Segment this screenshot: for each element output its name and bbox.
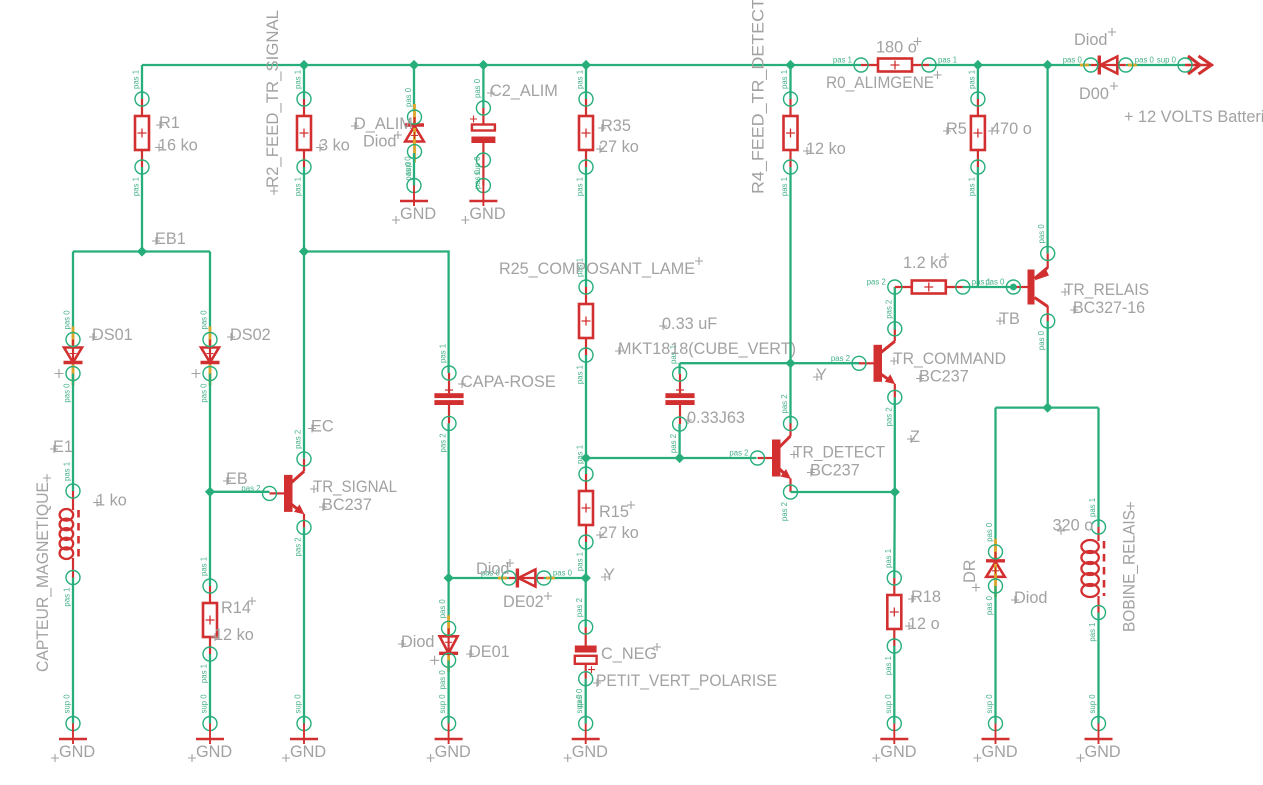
wire R15 to Y xyxy=(585,542,587,578)
wire EB to TR_SIGNAL base xyxy=(210,491,270,493)
svg-text:pas 1: pas 1 xyxy=(439,344,448,363)
ground GND (R18) xyxy=(872,694,916,762)
wire base row to TR_DETECT xyxy=(586,457,757,459)
svg-text:CAPA-ROSE: CAPA-ROSE xyxy=(461,373,556,391)
wire R2 drop from bus xyxy=(303,65,305,99)
svg-text:GND: GND xyxy=(469,205,505,223)
svg-text:pas 2: pas 2 xyxy=(780,502,789,521)
ground GND (C2_ALIM) xyxy=(461,156,505,224)
svg-text:+ 12 VOLTS Batterie: + 12 VOLTS Batterie xyxy=(1124,108,1263,126)
svg-text:DE02: DE02 xyxy=(503,593,544,611)
ground GND (C_NEG) xyxy=(564,694,608,762)
svg-text:GND: GND xyxy=(59,743,95,761)
wire R25 to base node xyxy=(585,355,587,458)
svg-text:PETIT_VERT_POLARISE: PETIT_VERT_POLARISE xyxy=(596,672,777,690)
svg-text:pas 2: pas 2 xyxy=(669,434,678,453)
svg-text:pas 1: pas 1 xyxy=(63,462,72,481)
wire Y row to TR_COMMAND base xyxy=(680,362,860,364)
svg-text:pas 2: pas 2 xyxy=(884,300,893,319)
wire relay row xyxy=(996,406,1099,408)
svg-text:pas 1: pas 1 xyxy=(294,70,303,89)
wire EB1 to DS01 xyxy=(72,252,74,340)
node E1 label xyxy=(50,438,73,456)
svg-text:TR_COMMAND: TR_COMMAND xyxy=(893,350,1006,368)
svg-text:GND: GND xyxy=(982,743,1018,761)
transistor TR_RELAIS xyxy=(985,224,1149,350)
svg-text:12 o: 12 o xyxy=(908,615,940,633)
junction relay node xyxy=(1043,403,1053,413)
svg-text:0.33J63: 0.33J63 xyxy=(687,409,745,427)
junction node EC xyxy=(299,246,309,256)
svg-text:pas 0: pas 0 xyxy=(200,310,209,330)
svg-text:R0_ALIMGENE: R0_ALIMGENE xyxy=(826,74,934,92)
ground GND (BOBINE) xyxy=(1077,694,1121,762)
svg-text:pas 0: pas 0 xyxy=(1135,56,1155,65)
svg-text:pas 1: pas 1 xyxy=(967,177,976,196)
svg-text:1.2 ko: 1.2 ko xyxy=(903,254,947,272)
wire EB to R14 xyxy=(209,492,211,586)
resistor R25 xyxy=(499,257,703,384)
svg-text:CAPTEUR_MAGNETIQUE: CAPTEUR_MAGNETIQUE xyxy=(34,482,52,672)
svg-text:pas 0: pas 0 xyxy=(1063,56,1083,65)
wire C_NEG to GND xyxy=(585,679,587,724)
wire relay row to DR xyxy=(994,408,996,552)
wire +12V bus left segment xyxy=(142,64,861,66)
svg-text:pas 1: pas 1 xyxy=(63,588,72,607)
junction bus/C2_ALIM xyxy=(478,60,488,70)
wire R2 to node EC xyxy=(303,167,305,252)
svg-text:pas 1: pas 1 xyxy=(576,365,585,384)
svg-text:pas 1: pas 1 xyxy=(967,70,976,89)
wire R5 drop from bus xyxy=(977,65,979,99)
svg-text:pas 0: pas 0 xyxy=(1037,330,1046,350)
wire 1.2ko to TR_RELAIS base xyxy=(963,286,1014,288)
wire D_ALIM drop from bus xyxy=(413,65,415,112)
svg-text:pas 0: pas 0 xyxy=(985,522,994,542)
wire CAPA-ROSE to DE row xyxy=(447,423,449,578)
node TB label xyxy=(996,310,1020,328)
svg-text:sup 0: sup 0 xyxy=(438,694,447,714)
junction cap/base row xyxy=(675,453,685,463)
svg-text:pas 0: pas 0 xyxy=(200,383,209,403)
svg-text:BOBINE_RELAIS: BOBINE_RELAIS xyxy=(1121,510,1139,632)
svg-text:pas 1: pas 1 xyxy=(132,70,141,89)
wire TR_COMMAND collector up xyxy=(894,287,896,330)
svg-text:R18: R18 xyxy=(911,588,941,606)
svg-text:R35: R35 xyxy=(601,117,631,135)
svg-text:pas 0: pas 0 xyxy=(63,310,72,330)
node EC label xyxy=(308,418,334,436)
svg-text:Diod: Diod xyxy=(1074,31,1108,49)
resistor R2 xyxy=(264,10,350,196)
svg-text:BC327-16: BC327-16 xyxy=(1073,299,1145,317)
svg-text:pas 1: pas 1 xyxy=(294,177,303,196)
ground GND (DR) xyxy=(974,694,1018,762)
wire C2_ALIM drop from bus xyxy=(482,65,484,108)
wire Y row to TR_DETECT collector xyxy=(789,363,791,424)
svg-text:pas 2: pas 2 xyxy=(729,449,748,458)
junction node EB xyxy=(205,487,215,497)
svg-text:MKT1818(CUBE_VERT): MKT1818(CUBE_VERT) xyxy=(618,340,796,358)
wire R1 drop from bus xyxy=(141,65,143,99)
svg-text:pas 1: pas 1 xyxy=(1088,498,1097,517)
wire DE02 right xyxy=(544,577,586,579)
svg-text:R2_FEED_TR_SIGNAL: R2_FEED_TR_SIGNAL xyxy=(264,10,282,188)
svg-text:pas 1: pas 1 xyxy=(884,549,893,568)
svg-text:C2_ALIM: C2_ALIM xyxy=(490,82,558,100)
node Y label (TR_COMMAND) xyxy=(813,366,827,384)
svg-text:pas 1: pas 1 xyxy=(576,177,585,196)
resistor 1.2 ko xyxy=(867,253,991,294)
svg-text:GND: GND xyxy=(880,743,916,761)
junction node EB1 xyxy=(137,246,147,256)
resistor R14 xyxy=(200,557,257,683)
svg-text:Diod: Diod xyxy=(363,133,397,151)
svg-text:pas 1: pas 1 xyxy=(884,656,893,675)
svg-text:pas 0: pas 0 xyxy=(1037,224,1046,244)
wire TR_RELAIS collector down xyxy=(1047,321,1049,408)
svg-text:DS01: DS01 xyxy=(92,326,133,344)
svg-text:0.33 uF: 0.33 uF xyxy=(662,315,717,333)
svg-text:R15: R15 xyxy=(599,503,629,521)
svg-text:DR: DR xyxy=(961,559,979,583)
svg-text:R5: R5 xyxy=(946,120,967,138)
inductor CAPTEUR_MAGNETIQUE xyxy=(34,462,127,672)
capacitor C_NEG xyxy=(575,598,777,708)
junction bus/R35 xyxy=(581,60,591,70)
wire +12V bus middle segment xyxy=(929,64,1091,66)
svg-text:TR_RELAIS: TR_RELAIS xyxy=(1064,281,1149,299)
wire DS01 to coil xyxy=(72,374,74,492)
node EC wire to CAPA-ROSE xyxy=(304,252,449,374)
wire EC down to collector xyxy=(303,252,305,459)
svg-text:sup 0: sup 0 xyxy=(404,156,413,176)
diode DR xyxy=(961,522,1048,615)
svg-text:R14: R14 xyxy=(221,599,251,617)
svg-text:pas 1: pas 1 xyxy=(576,552,585,571)
wire DR to GND xyxy=(994,586,996,724)
wire DE02 left xyxy=(449,577,509,579)
svg-text:sup 0: sup 0 xyxy=(1088,694,1097,714)
svg-text:pas 0: pas 0 xyxy=(438,670,447,690)
wire EB1 horizontal xyxy=(73,250,210,252)
node EB1 label xyxy=(152,230,186,248)
svg-text:sup 0: sup 0 xyxy=(884,694,893,714)
svg-text:sup 0: sup 0 xyxy=(63,694,72,714)
svg-text:EC: EC xyxy=(311,418,334,436)
junction base node (R15 top) xyxy=(581,453,591,463)
wire R4 drop from bus xyxy=(789,65,791,99)
svg-text:pas 1: pas 1 xyxy=(576,70,585,89)
supply symbol +12V xyxy=(1157,56,1213,75)
svg-text:pas 1: pas 1 xyxy=(938,56,957,65)
svg-text:TR_SIGNAL: TR_SIGNAL xyxy=(313,478,397,496)
wire TR_SIGNAL emitter to GND xyxy=(303,527,305,723)
svg-text:TB: TB xyxy=(999,310,1020,328)
wire TR_DETECT emitter row xyxy=(791,491,895,493)
svg-text:Y: Y xyxy=(816,366,827,384)
svg-text:pas 2: pas 2 xyxy=(831,354,850,363)
wire cap 0.33 branch xyxy=(678,363,680,374)
svg-text:Diod: Diod xyxy=(401,633,435,651)
resistor R5 xyxy=(943,70,1032,196)
svg-text:BC237: BC237 xyxy=(322,496,372,514)
svg-text:pas 1: pas 1 xyxy=(576,445,585,464)
junction bus/R4 xyxy=(785,60,795,70)
svg-text:sup 0: sup 0 xyxy=(200,694,209,714)
svg-text:pas 1: pas 1 xyxy=(780,177,789,196)
svg-text:12 ko: 12 ko xyxy=(214,626,254,644)
junction DE01/DE02 node xyxy=(444,573,454,583)
wire R35 to R25 xyxy=(585,167,587,287)
junction bus/R2 xyxy=(299,60,309,70)
svg-text:27 ko: 27 ko xyxy=(599,524,639,542)
junction bus/D_ALIM xyxy=(409,60,419,70)
transistor TR_COMMAND xyxy=(831,300,1006,427)
svg-text:pas 2: pas 2 xyxy=(780,394,789,413)
svg-text:DS02: DS02 xyxy=(230,326,271,344)
ground GND (D_ALIM) xyxy=(392,156,436,224)
svg-text:3 ko: 3 ko xyxy=(319,137,350,155)
resistor R18 xyxy=(884,549,941,675)
diode D00 xyxy=(1063,28,1155,103)
wire R14 to GND xyxy=(209,654,211,724)
svg-text:GND: GND xyxy=(196,743,232,761)
wire BOBINE to GND xyxy=(1097,613,1099,724)
svg-text:sup 0: sup 0 xyxy=(1157,56,1177,65)
wire cap 0.33 to base row xyxy=(678,424,680,458)
svg-text:pas 0: pas 0 xyxy=(473,78,482,98)
svg-text:GND: GND xyxy=(290,743,326,761)
node EB label xyxy=(223,470,248,488)
capacitor C2_ALIM xyxy=(470,78,558,189)
wire C2_ALIM to GND xyxy=(482,160,484,186)
ground GND (DE01) xyxy=(427,694,471,762)
svg-text:12 ko: 12 ko xyxy=(806,140,846,158)
resistor R0_ALIMGENE xyxy=(826,38,957,93)
svg-text:pas 2: pas 2 xyxy=(439,433,448,452)
wire D_ALIM to GND xyxy=(413,153,415,186)
svg-text:sup 0: sup 0 xyxy=(473,156,482,176)
wire +12V bus right segment xyxy=(1126,64,1185,66)
wire TR_COMMAND emitter to Z xyxy=(894,397,896,492)
svg-text:D_ALIM: D_ALIM xyxy=(354,115,413,133)
junction node Z xyxy=(890,487,900,497)
svg-text:pas 0: pas 0 xyxy=(63,383,72,403)
junction bus/R5 xyxy=(973,60,983,70)
svg-text:pas 1: pas 1 xyxy=(833,56,852,65)
svg-text:GND: GND xyxy=(435,743,471,761)
diode DS01 xyxy=(55,310,133,403)
svg-text:GND: GND xyxy=(400,205,436,223)
wire R5 to TB node xyxy=(977,167,979,287)
svg-text:pas 2: pas 2 xyxy=(884,407,893,426)
svg-text:1 ko: 1 ko xyxy=(96,492,127,510)
svg-text:pas 1: pas 1 xyxy=(780,70,789,89)
svg-text:pas 0: pas 0 xyxy=(985,278,1005,287)
wire TR_RELAIS emitter to bus xyxy=(1046,65,1048,253)
svg-text:D00: D00 xyxy=(1079,85,1109,103)
svg-text:sup 0: sup 0 xyxy=(985,694,994,714)
svg-text:DE01: DE01 xyxy=(469,643,510,661)
svg-text:470 o: 470 o xyxy=(991,120,1032,138)
resistor R1 xyxy=(132,70,198,196)
svg-text:R25_COMPOSANT_LAME: R25_COMPOSANT_LAME xyxy=(499,260,695,278)
wire DE01 to GND xyxy=(447,660,449,723)
capacitor 0.33uF MKT1818 xyxy=(615,315,796,453)
diode DS02 xyxy=(192,310,271,403)
diode DE02 xyxy=(476,559,573,611)
svg-text:pas 2: pas 2 xyxy=(294,537,303,556)
resistor R15 xyxy=(576,445,639,571)
wire coil to GND xyxy=(72,578,74,724)
transistor TR_DETECT xyxy=(729,394,885,521)
svg-text:27 ko: 27 ko xyxy=(599,138,639,156)
diode D_ALIM xyxy=(351,87,424,180)
svg-text:pas 2: pas 2 xyxy=(575,598,584,617)
svg-text:pas 2: pas 2 xyxy=(241,484,260,493)
wire relay row to BOBINE xyxy=(1097,408,1099,527)
svg-text:pas 1: pas 1 xyxy=(200,664,209,683)
svg-text:pas 1: pas 1 xyxy=(200,557,209,576)
wire to R15 xyxy=(585,458,587,474)
diode DE01 xyxy=(398,599,510,690)
svg-text:pas 1: pas 1 xyxy=(132,177,141,196)
wire R4 to Y row xyxy=(789,167,791,363)
svg-text:Diod: Diod xyxy=(1014,589,1048,607)
svg-text:pas 0: pas 0 xyxy=(438,599,447,619)
svg-text:pas 1: pas 1 xyxy=(1088,623,1097,642)
svg-text:TR_DETECT: TR_DETECT xyxy=(793,444,885,462)
junction R4/Y row xyxy=(785,358,795,368)
svg-text:R1: R1 xyxy=(159,114,180,132)
wire R35 drop from bus xyxy=(585,65,587,99)
svg-text:Diod: Diod xyxy=(476,560,510,578)
transistor TR_SIGNAL xyxy=(241,430,397,557)
ground GND (R14) xyxy=(188,694,232,762)
svg-text:16 ko: 16 ko xyxy=(158,137,198,155)
node Y label xyxy=(601,566,615,584)
svg-text:pas 2: pas 2 xyxy=(867,278,886,287)
inductor BOBINE_RELAIS xyxy=(1053,498,1139,642)
ground GND (capteur) xyxy=(51,694,95,762)
svg-text:pas 0: pas 0 xyxy=(553,569,573,578)
resistor R35 xyxy=(576,70,639,196)
junction node Y xyxy=(581,573,591,583)
wire R1 to node EB1 xyxy=(141,167,143,252)
svg-text:Y: Y xyxy=(604,566,615,584)
wire Y to C_NEG xyxy=(585,578,587,627)
net label +12 VOLTS Batterie xyxy=(1124,108,1263,126)
svg-text:180 o: 180 o xyxy=(876,39,917,57)
svg-text:GND: GND xyxy=(572,743,608,761)
svg-text:pas 0: pas 0 xyxy=(404,87,413,107)
wire to DE01 xyxy=(447,578,449,628)
svg-text:R4_FEED_TR_DETECT: R4_FEED_TR_DETECT xyxy=(750,0,768,194)
svg-text:C_NEG: C_NEG xyxy=(601,645,657,663)
wire DS02 to node EB xyxy=(209,374,211,492)
wire Z to R18 xyxy=(893,492,896,578)
wire R18 to GND xyxy=(893,646,895,724)
ground GND (TR_SIGNAL) xyxy=(282,694,326,762)
svg-text:pas 2: pas 2 xyxy=(294,430,303,449)
svg-text:E1: E1 xyxy=(53,438,73,456)
svg-text:sup 0: sup 0 xyxy=(294,694,303,714)
svg-text:pas 0: pas 0 xyxy=(985,595,994,615)
svg-text:320 o: 320 o xyxy=(1053,517,1094,535)
svg-text:GND: GND xyxy=(1085,743,1121,761)
capacitor CAPA-ROSE xyxy=(434,344,555,453)
svg-text:EB1: EB1 xyxy=(155,230,186,248)
node Z label xyxy=(907,428,920,446)
wire EB1 to DS02 xyxy=(209,252,211,340)
junction bus/TR_RELAIS emitter xyxy=(1043,60,1053,70)
svg-text:sup 0: sup 0 xyxy=(575,694,584,714)
resistor R4 xyxy=(750,0,846,196)
svg-text:BC237: BC237 xyxy=(810,462,860,480)
svg-text:BC237: BC237 xyxy=(919,368,969,386)
